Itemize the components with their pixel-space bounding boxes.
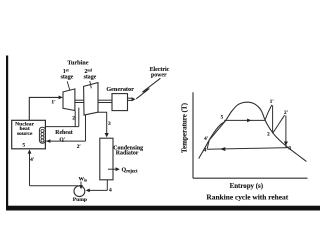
turbine 1st stage — [63, 89, 75, 111]
turbine 2nd stage — [84, 83, 98, 116]
svg-text:2: 2 — [72, 115, 75, 121]
wire condenser to pump (node 4) — [106, 180, 108, 191]
leader line 1st stage — [67, 81, 70, 90]
process 4 to 4' (pumping) — [207, 140, 209, 149]
wire pump to 4' — [30, 185, 79, 187]
svg-text:4: 4 — [204, 147, 207, 153]
process 2 to 2' (reheat) — [273, 115, 285, 133]
page bottom border bar — [6, 206, 320, 211]
svg-text:stage: stage — [61, 74, 74, 80]
svg-text:3: 3 — [289, 146, 292, 152]
svg-text:source: source — [17, 131, 33, 137]
generator box — [112, 94, 128, 111]
wire 3 turbine2 to condenser — [98, 112, 107, 134]
svg-text:Entropy (s): Entropy (s) — [230, 183, 263, 190]
wire riser 2' into turbine 2 — [85, 115, 87, 141]
svg-text:Temperature (T): Temperature (T) — [181, 102, 189, 153]
pump P — [74, 186, 85, 197]
svg-text:2′: 2′ — [77, 144, 82, 150]
svg-text:4′: 4′ — [30, 157, 35, 163]
generator output arrow — [128, 97, 133, 99]
electric power zigzag — [136, 78, 160, 99]
svg-text:Generator: Generator — [106, 86, 134, 93]
process 5 boiling line — [224, 119, 265, 121]
svg-text:Q′: Q′ — [59, 137, 65, 143]
svg-text:5: 5 — [221, 115, 224, 121]
svg-text:5: 5 — [22, 143, 25, 149]
shaft turbine1-turbine2 — [75, 99, 84, 101]
nuclear heat source box — [12, 120, 46, 149]
T-s diagram y-axis — [192, 92, 194, 178]
svg-text:Pump: Pump — [73, 197, 87, 203]
svg-text:in: in — [84, 178, 88, 182]
process 1' to 2 (1st expansion) — [272, 105, 274, 133]
svg-text:Radiator: Radiator — [116, 151, 139, 157]
wire 2' from coil to turbine 2 — [45, 140, 85, 142]
svg-text:1′: 1′ — [270, 99, 275, 105]
svg-text:stage: stage — [84, 74, 97, 80]
wire 2 to reheat coil — [45, 126, 78, 128]
svg-text:4: 4 — [109, 187, 112, 193]
svg-text:power: power — [151, 73, 167, 79]
svg-text:Reheat: Reheat — [55, 130, 72, 136]
process superheat to 1' — [265, 105, 272, 120]
svg-text:2: 2 — [267, 132, 270, 138]
T-s diagram x-axis — [193, 177, 308, 179]
page left border line — [6, 56, 8, 209]
Qreject arrow — [108, 168, 118, 170]
saturation dome curve — [199, 102, 307, 161]
svg-text:Rankine cycle with reheat: Rankine cycle with reheat — [206, 192, 288, 201]
svg-text:2′: 2′ — [284, 110, 289, 116]
process 3 to 4 (condensing) — [207, 148, 289, 150]
svg-text:3: 3 — [108, 121, 111, 127]
svg-text:Turbine: Turbine — [67, 60, 88, 67]
Q' heat arrowhead into coil — [46, 139, 50, 143]
svg-text:1′: 1′ — [51, 100, 56, 106]
svg-text:4′: 4′ — [204, 136, 209, 142]
svg-text:Qreject: Qreject — [122, 167, 138, 174]
leader line 2nd stage — [90, 81, 92, 88]
process 2' to 3 (2nd expansion) — [285, 115, 287, 147]
reheat coil — [39, 127, 45, 143]
Win arrow into pump — [80, 182, 82, 187]
condensing radiator box — [100, 138, 113, 180]
shaft turbine2-generator — [98, 99, 112, 101]
process 4' to 5 (heating) — [209, 121, 225, 141]
wire 4' into heat source — [29, 151, 31, 186]
wire 1' from nuclear heat source to turbine 1 — [29, 97, 61, 120]
turbine 1 exhaust duct (node 2) — [74, 111, 76, 127]
